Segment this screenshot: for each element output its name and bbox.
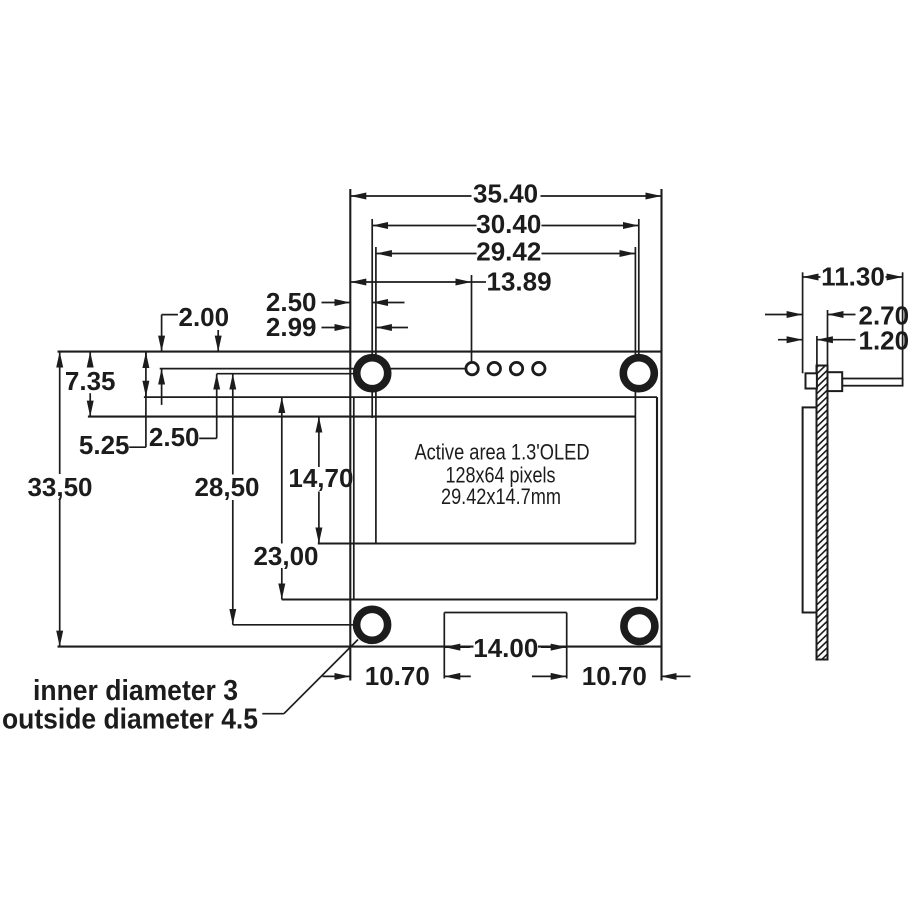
dimension 35.40 line left: [350, 195, 471, 197]
dimension 30.40 line left: [372, 225, 476, 227]
solder nub left side: [806, 373, 817, 388]
dimension 14.00 left arrow: [444, 646, 470, 648]
pin hole 2: [488, 362, 500, 374]
wire pin-1 extension line (13.89): [471, 275, 473, 362]
dimension 11.30 line right: [886, 276, 903, 278]
svg-text:2.99: 2.99: [266, 312, 317, 342]
svg-text:7.35: 7.35: [65, 366, 116, 396]
dimension 2.00 up arrow: [161, 369, 163, 405]
wire leader horizontal: [262, 713, 284, 715]
wire glass bottom edge (extended left): [282, 598, 657, 600]
pin header pin: [842, 379, 902, 386]
wire side ext bar-right: [827, 310, 829, 366]
wire active area right edge (extended up for 29.42): [634, 247, 636, 544]
dimension 23.00 lower: [281, 568, 283, 600]
svg-text:14.00: 14.00: [473, 633, 538, 663]
svg-text:5.25: 5.25: [79, 430, 130, 460]
dimension 2.50b down arrow: [217, 330, 219, 352]
hole top-left (ring): [357, 358, 388, 389]
dimension 5.25 leader: [129, 446, 146, 448]
dimension 29.42 line right: [542, 253, 636, 255]
svg-text:1.20: 1.20: [859, 326, 910, 356]
dimension 2.70 right arrow: [828, 314, 856, 316]
pin header housing: [828, 372, 843, 391]
wire glass top edge (extended left): [144, 396, 657, 398]
dimension 2.50 arrow to hole line: [372, 302, 404, 304]
dimension 5.25 up arrowhead: [145, 352, 147, 366]
wire side ext glass-left: [802, 272, 804, 373]
dimension 14.70 upper: [318, 417, 320, 467]
dimension 2.00 down arrow left: [161, 315, 163, 352]
svg-text:2.50: 2.50: [149, 422, 200, 452]
wire bottom hole-row line (28.50): [233, 624, 372, 626]
wire active area left edge (extended up for 29.42): [375, 247, 377, 544]
svg-text:14,70: 14,70: [288, 463, 353, 493]
hole bottom-left (ring): [357, 609, 388, 640]
dimension 1.20 left arrow: [778, 339, 803, 341]
svg-text:28,50: 28,50: [194, 472, 259, 502]
dimension 1.20 right arrow: [817, 339, 856, 341]
dimension 2.99 arrow to active edge: [376, 327, 408, 329]
wire connector box right (extended down): [566, 613, 568, 679]
wire connector box left (extended down): [443, 613, 445, 679]
wire hole-row line (2.50): [217, 373, 373, 375]
svg-text:10.70: 10.70: [365, 661, 430, 691]
dimension 13.89 tail: [472, 281, 487, 283]
dimension 5.25 line: [145, 352, 147, 448]
dimension 14.00 right arrow: [541, 646, 567, 648]
wire pin-row line (2.00): [160, 368, 467, 370]
svg-text:30.40: 30.40: [476, 209, 541, 239]
svg-text:13.89: 13.89: [487, 267, 552, 297]
dimension 33.50 upper: [59, 352, 61, 474]
svg-text:outside diameter 4.5: outside diameter 4.5: [2, 704, 258, 736]
wire glass left edge: [353, 397, 355, 599]
wire glass right edge: [656, 397, 658, 599]
wire active area bottom edge (extended left): [318, 542, 636, 544]
glass side bar: [803, 407, 817, 612]
dimension 10.70 right outer arrow: [661, 675, 691, 677]
pin hole 1: [466, 362, 478, 374]
dimension 2.00 bracket: [162, 314, 178, 316]
dimension 5.25 down arrowhead: [145, 382, 147, 397]
pin hole 4: [533, 362, 545, 374]
dimension 10.70 right inner arrow: [532, 675, 567, 677]
dimension 29.42 line left: [376, 253, 477, 255]
dimension 2.50 arrow to PCB edge: [322, 302, 351, 304]
dimension 10.70 left inner arrow: [444, 675, 471, 677]
svg-text:35.40: 35.40: [473, 179, 538, 209]
dimension 2.99 arrow to PCB edge: [322, 327, 351, 329]
wire PCB left edge (extended up+down): [349, 189, 351, 681]
dimension 14.70 lower: [318, 492, 320, 544]
svg-text:29.42: 29.42: [476, 237, 541, 267]
wire hole-center extension left (30.40): [371, 219, 373, 418]
svg-text:10.70: 10.70: [582, 661, 647, 691]
PCB side bar: [817, 366, 828, 660]
svg-text:23,00: 23,00: [253, 541, 318, 571]
wire PCB top edge (extended left): [58, 351, 662, 353]
dimension 10.70 left outer arrow: [323, 675, 351, 677]
wire PCB bottom edge left part (extended left): [58, 646, 474, 648]
dimension 23.00 upper: [281, 397, 283, 543]
dimension 28.50 upper: [232, 374, 234, 475]
pin hole 3: [510, 362, 522, 374]
svg-text:inner diameter 3: inner diameter 3: [33, 675, 238, 707]
dimension 35.40 line right: [541, 195, 662, 197]
dimension 28.50 lower: [232, 500, 234, 625]
dimension 7.35 up arrow: [89, 352, 91, 368]
dimension 2.50b up arrow: [216, 374, 218, 439]
svg-text:33,50: 33,50: [27, 472, 92, 502]
dimension 7.35 down arrow: [89, 393, 91, 416]
hole top-right (ring): [623, 358, 654, 389]
svg-text:Active area 1.3'OLED: Active area 1.3'OLED: [415, 439, 590, 464]
wire PCB bottom edge right part: [538, 646, 662, 648]
dimension 11.30 line left: [803, 276, 821, 278]
PCB side bar hatching: [816, 356, 829, 672]
svg-text:11.30: 11.30: [821, 262, 885, 292]
dimension 13.89 line: [350, 281, 471, 283]
wire hole-center extension right (30.40): [638, 219, 640, 373]
wire leader diagonal to hole: [284, 640, 358, 714]
dimension 30.40 line right: [542, 225, 639, 227]
wire side ext pin-tip: [902, 272, 904, 378]
hole bottom-right (ring): [624, 611, 655, 642]
wire side ext bar-left: [816, 336, 818, 373]
dimension 33.50 lower: [59, 500, 61, 647]
dimension 2.70 left arrow: [765, 314, 803, 316]
svg-text:2.00: 2.00: [179, 302, 230, 332]
svg-text:29.42x14.7mm: 29.42x14.7mm: [441, 484, 561, 509]
dimension 2.50b leader: [199, 437, 217, 439]
wire connector box top: [444, 612, 566, 614]
wire active area top edge (extended left): [88, 416, 636, 418]
wire PCB right edge (extended up+down): [660, 189, 662, 681]
